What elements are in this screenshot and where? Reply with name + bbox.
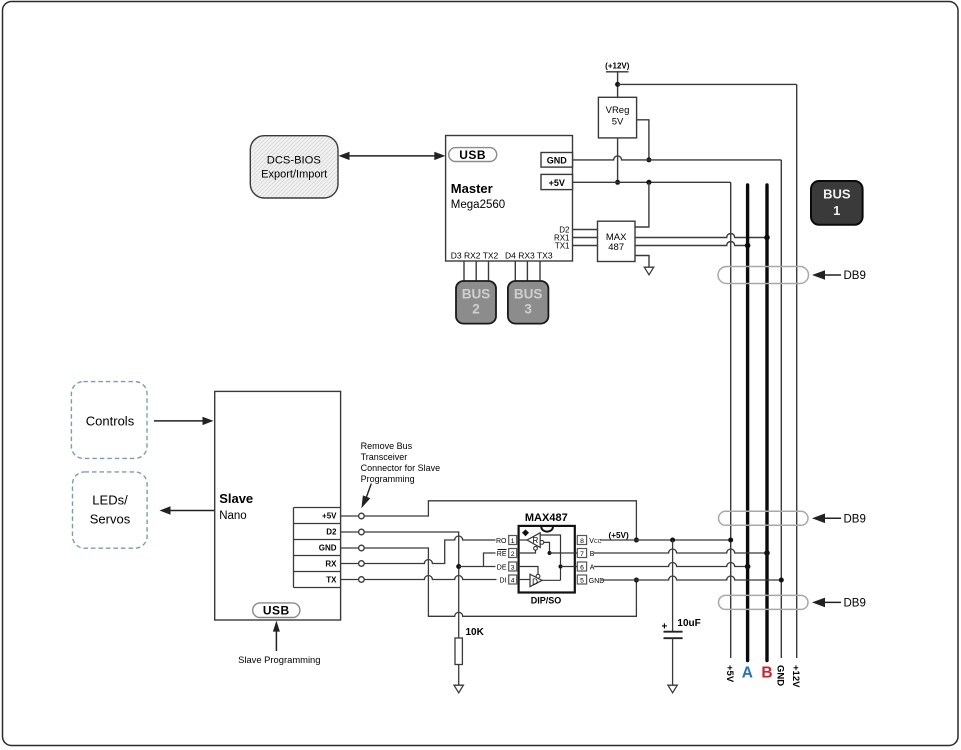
svg-text:1: 1	[833, 203, 840, 218]
svg-text:Nano: Nano	[219, 510, 247, 522]
wire GND bus vertical	[780, 160, 782, 658]
box DCS-BIOS Export/Import	[250, 136, 338, 198]
svg-text:RE: RE	[497, 551, 507, 558]
svg-text:Export/Import: Export/Import	[261, 169, 327, 181]
node junction B bottom	[764, 550, 770, 556]
pin 2 box	[509, 549, 517, 559]
capacitor 10uF	[662, 540, 701, 638]
pin block slave	[294, 508, 341, 588]
connector USB (master)	[449, 148, 497, 163]
pin box GND	[541, 153, 573, 168]
svg-text:(+12V): (+12V)	[605, 62, 630, 71]
svg-text:5V: 5V	[612, 117, 624, 128]
node junction VReg/+5V	[615, 180, 620, 185]
ground (10K)	[454, 685, 463, 693]
svg-text:DCS-BIOS: DCS-BIOS	[267, 155, 321, 167]
svg-text:4: 4	[511, 578, 515, 585]
svg-text:10uF: 10uF	[677, 618, 700, 629]
svg-text:A: A	[590, 565, 595, 572]
connector DB9 (middle)	[719, 511, 866, 525]
pin1 marker diamond	[522, 529, 529, 536]
wire VReg right to GND row	[637, 120, 649, 160]
node junction GND bottom	[634, 578, 639, 583]
svg-text:+5V: +5V	[549, 178, 565, 188]
pin 3 box	[509, 562, 517, 572]
node junction +5V/Vcc branch	[646, 180, 651, 185]
svg-text:+: +	[662, 622, 668, 633]
svg-text:VReg: VReg	[606, 105, 630, 116]
wire +5V row to circle	[341, 515, 359, 517]
connector circle GND	[359, 545, 365, 551]
node junction +12V	[615, 82, 620, 87]
svg-text:7: 7	[580, 551, 584, 558]
wire RX to RO with hops	[364, 536, 495, 564]
svg-text:TX: TX	[326, 576, 337, 585]
node junction A bottom	[745, 564, 751, 570]
wire GND row to circle	[341, 547, 359, 549]
svg-text:487: 487	[608, 242, 624, 253]
box Master Mega2560	[446, 136, 573, 262]
wire TX row to circle	[341, 579, 359, 581]
svg-text:Transceiver: Transceiver	[361, 452, 408, 462]
wire B row to bus B with hops	[594, 549, 767, 553]
wire double arrow DCS-BIOS to Master	[339, 152, 446, 160]
svg-text:8: 8	[580, 538, 584, 545]
wire +5V to top path	[364, 501, 636, 540]
svg-text:B: B	[590, 551, 595, 558]
svg-text:VCC: VCC	[589, 538, 601, 545]
svg-text:Slave: Slave	[219, 491, 253, 506]
svg-text:D: D	[532, 577, 538, 586]
wire D2 to DE/10K	[364, 532, 459, 638]
wire DE from D2 junction	[459, 566, 496, 568]
svg-text:BUS: BUS	[514, 286, 543, 301]
svg-text:B: B	[761, 665, 772, 682]
svg-text:DE: DE	[497, 565, 507, 572]
IC body MAX487 U2	[519, 526, 575, 593]
svg-text:D4 RX3 TX3: D4 RX3 TX3	[505, 251, 553, 261]
pin 7 box	[577, 549, 586, 559]
svg-text:Remove Bus: Remove Bus	[361, 441, 413, 451]
wire GND row with hop	[573, 156, 782, 160]
wire TX to DI with hops	[364, 576, 496, 580]
node BUS 3	[508, 281, 549, 324]
wire D2 master to MAX487	[573, 229, 598, 231]
svg-text:DIP/SO: DIP/SO	[531, 596, 562, 606]
IC internals: receiver R	[519, 533, 578, 555]
node junction cap top	[670, 538, 675, 543]
svg-text:LEDs/: LEDs/	[92, 493, 128, 508]
node BUS 1	[811, 181, 863, 225]
wire D2 row to circle	[341, 531, 359, 533]
wire Vcc feed to MAX487	[635, 182, 649, 227]
label annotation Remove Bus Transceiver	[361, 441, 441, 484]
svg-text:D3 RX2 TX2: D3 RX2 TX2	[451, 251, 499, 261]
resistor 10K	[455, 627, 485, 665]
svg-text:(+5V): (+5V)	[608, 531, 629, 540]
svg-text:+12V: +12V	[790, 665, 801, 688]
svg-text:USB: USB	[459, 148, 486, 162]
IC internals: driver D	[519, 535, 578, 587]
connector circle TX	[359, 577, 365, 583]
node junction GND bus	[779, 578, 784, 583]
svg-text:6: 6	[580, 565, 584, 572]
ground (cap)	[668, 685, 677, 693]
wire arrow slave programming to USB	[273, 621, 280, 651]
notch	[541, 527, 553, 532]
svg-text:DB9: DB9	[844, 598, 866, 610]
pin 1 box	[509, 536, 517, 546]
wire RE branch	[484, 553, 496, 567]
wire A row to bus A with hops	[594, 563, 748, 567]
node (+12V) label	[605, 62, 630, 72]
wire arrow Slave to LEDs	[160, 506, 215, 514]
svg-text:RO: RO	[496, 538, 507, 545]
wire +5V bus vertical	[730, 182, 732, 658]
svg-text:D2: D2	[326, 528, 337, 537]
connector DB9 (top)	[718, 267, 866, 284]
svg-text:BUS: BUS	[823, 187, 851, 202]
svg-text:A: A	[742, 665, 753, 682]
svg-text:GND: GND	[589, 578, 605, 585]
svg-text:RX: RX	[325, 560, 337, 569]
wire RX3 to BUS3	[526, 261, 528, 280]
wire Vcc row to +5V bus	[600, 539, 731, 541]
wire arrow Controls to Slave	[154, 417, 214, 425]
wire MAX487 A out to bus A	[635, 242, 748, 246]
node junction VReg-gnd/GND row	[646, 157, 651, 162]
pin 6 box	[577, 562, 586, 572]
node junction +5V bus	[728, 538, 733, 543]
svg-text:Connector for Slave: Connector for Slave	[361, 463, 441, 473]
wire MAX487 gnd stub	[635, 256, 649, 268]
svg-text:Master: Master	[451, 181, 493, 196]
pin label RE (overline)	[497, 550, 507, 559]
ground (MAX487 master)	[644, 267, 653, 275]
wire GND to bottom path with hop	[364, 548, 636, 616]
svg-text:+5V: +5V	[724, 665, 735, 683]
svg-text:Mega2560: Mega2560	[451, 199, 505, 211]
svg-text:TX1: TX1	[555, 241, 570, 250]
wire +5V row	[573, 181, 731, 183]
connector USB (slave)	[253, 603, 300, 618]
svg-text:2: 2	[511, 551, 515, 558]
svg-text:Slave Programming: Slave Programming	[238, 654, 320, 665]
node LEDs/Servos	[73, 472, 148, 548]
pin box +5V	[541, 174, 573, 189]
wire VReg bottom to +5V row	[617, 138, 619, 182]
wire TX1 master to MAX487	[573, 245, 598, 247]
transceiver MAX 487 (master side)	[598, 221, 636, 261]
svg-text:Programming: Programming	[361, 474, 415, 484]
node junction A	[745, 243, 751, 249]
regulator VReg 5V	[598, 97, 636, 138]
svg-text:10K: 10K	[466, 627, 485, 638]
wire D3 to BUS2	[463, 261, 465, 280]
node junction Vcc top	[634, 538, 639, 543]
svg-text:MAX487: MAX487	[525, 512, 568, 524]
node junction B	[764, 235, 770, 241]
wire +12V horizontal to right	[618, 83, 797, 85]
wire (+12V) down to junction	[617, 73, 619, 98]
wire +12V bus vertical	[796, 84, 798, 658]
connector DB9 (bottom)	[719, 595, 866, 609]
wire arrow annotation to +5V circle	[361, 484, 371, 509]
pin 5 box	[577, 575, 586, 585]
svg-text:BUS: BUS	[462, 286, 491, 301]
svg-text:+5V: +5V	[322, 512, 337, 521]
pin 8 box	[577, 536, 586, 546]
node BUS 2	[456, 281, 496, 324]
svg-text:DI: DI	[500, 578, 507, 585]
wire D4 to BUS3	[514, 261, 516, 280]
svg-text:DB9: DB9	[844, 270, 866, 282]
wire 10K to ground	[458, 665, 460, 686]
pin 4 box	[509, 575, 517, 585]
svg-text:5: 5	[580, 578, 584, 585]
wire RX row to circle	[341, 563, 359, 565]
svg-text:DB9: DB9	[844, 514, 866, 526]
wire RX2 to BUS2	[475, 261, 477, 280]
svg-text:GND: GND	[319, 544, 337, 553]
wire bus B thick	[765, 185, 768, 661]
wire MAX487 B out to bus B	[635, 234, 767, 238]
connector circle +5V	[359, 513, 365, 519]
svg-text:3: 3	[511, 565, 515, 572]
node Controls	[71, 382, 147, 459]
svg-text:2: 2	[472, 301, 480, 316]
svg-text:Servos: Servos	[90, 512, 131, 527]
connector circle RX	[359, 561, 365, 567]
svg-text:USB: USB	[263, 604, 290, 618]
svg-text:1: 1	[511, 538, 515, 545]
svg-text:GND: GND	[547, 156, 568, 166]
svg-text:GND: GND	[774, 665, 785, 686]
node junction D2/DE	[456, 564, 461, 569]
connector circle D2	[359, 529, 365, 535]
wire TX2 to BUS2	[488, 261, 490, 280]
wire bus A thick	[746, 185, 749, 661]
wire cap to ground	[672, 638, 674, 685]
svg-text:Controls: Controls	[86, 414, 135, 429]
box Slave Nano	[215, 391, 341, 620]
svg-text:3: 3	[524, 301, 532, 316]
svg-text:R: R	[533, 536, 539, 545]
wire GND row to bus GND with hops	[601, 576, 781, 580]
wire TX3 to BUS3	[539, 261, 541, 280]
wire RX1 master to MAX487	[573, 237, 598, 239]
